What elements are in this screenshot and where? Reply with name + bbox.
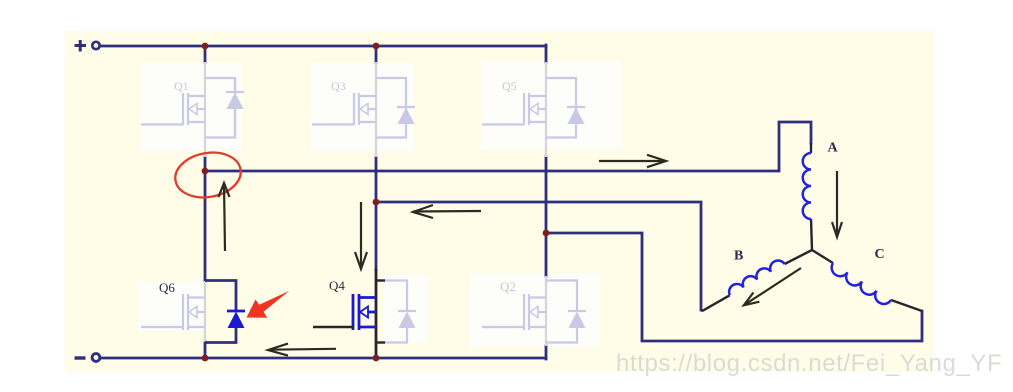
faded highlight box Q6 <box>138 281 203 331</box>
junction node top leg1 <box>202 43 209 50</box>
terminal + <box>75 40 87 52</box>
motor winding A leads <box>810 143 812 153</box>
red annotation arrow <box>247 291 290 318</box>
faded highlight box Q3 <box>311 63 413 151</box>
current arrow winding B <box>744 268 801 305</box>
svg-text:https://blog.csdn.net/Fei_Yang: https://blog.csdn.net/Fei_Yang_YF <box>616 350 1002 377</box>
svg-text:Q3: Q3 <box>331 79 346 93</box>
wire leg3 lower <box>545 346 548 359</box>
terminal - <box>75 356 86 359</box>
motor winding C leads <box>812 250 833 263</box>
faded highlight box Q4 diode <box>383 274 428 343</box>
motor winding B leads <box>785 250 812 264</box>
Q4 diode branch stubs <box>376 279 385 281</box>
wire leg3 mid <box>545 157 548 276</box>
junction node phase1 <box>202 168 209 175</box>
current arrow down at Q4 <box>355 202 367 269</box>
svg-text:B: B <box>734 249 743 264</box>
junction node bottom leg2 <box>373 355 380 362</box>
current arrow winding A down <box>832 171 842 237</box>
svg-text:Q2: Q2 <box>500 279 516 294</box>
wire leg1 lower <box>204 342 207 358</box>
transistor Q5 (faded) <box>482 62 585 157</box>
junction node phase3 <box>543 230 550 237</box>
svg-text:C: C <box>875 247 885 262</box>
svg-text:Q6: Q6 <box>159 280 175 295</box>
wire leg2 upper <box>375 46 378 62</box>
current arrow up at Q6 <box>219 183 230 251</box>
svg-text:Q1: Q1 <box>174 79 189 93</box>
wire phase2 to motor B <box>376 202 701 310</box>
diode D6 (active, blue) <box>205 281 236 343</box>
transistor Q4 (MOSFET active, body diode faded) <box>353 294 376 330</box>
coil C <box>828 263 891 307</box>
diode D4 (faded) <box>385 281 416 343</box>
transistor Q1 (faded) <box>141 62 244 157</box>
faded highlight box Q1 <box>140 63 242 151</box>
transistor Q3 (faded) <box>312 62 415 157</box>
wire leg3 upper <box>545 45 548 62</box>
wire leg2 mid <box>375 157 378 270</box>
svg-text:Q5: Q5 <box>502 79 517 93</box>
svg-text:Q4: Q4 <box>329 278 345 293</box>
junction node top leg2 <box>373 43 380 50</box>
schematic sheet background <box>65 31 934 372</box>
svg-text:A: A <box>828 141 839 156</box>
transistor Q2 (faded) <box>482 276 586 346</box>
terminal circle bottom <box>92 354 100 362</box>
faded highlight box Q5 <box>481 61 621 150</box>
red ellipse annotation <box>172 148 245 203</box>
wire leg1 mid <box>204 157 207 281</box>
current arrow bottom left <box>268 344 336 356</box>
coil A <box>803 153 811 219</box>
junction node phase2 <box>373 199 380 206</box>
transistor Q6 (MOSFET faded, body diode active) <box>141 281 205 342</box>
wire top rail <box>100 45 546 48</box>
Q4 gate wire <box>313 326 353 328</box>
wire phase3 to motor C <box>546 233 922 341</box>
wire leg1 upper <box>204 46 207 62</box>
current arrow phase2 left <box>413 205 481 218</box>
wire phase1 to motor A <box>205 122 811 171</box>
current arrow phase1 right <box>599 155 666 167</box>
wire bottom rail <box>100 357 546 360</box>
terminal circle top <box>92 42 99 49</box>
coil B <box>726 258 784 296</box>
faded highlight box Q2 <box>470 273 600 347</box>
wire leg2 lower (through Q4, dark) <box>375 270 378 358</box>
junction node bottom leg1 <box>202 355 209 362</box>
